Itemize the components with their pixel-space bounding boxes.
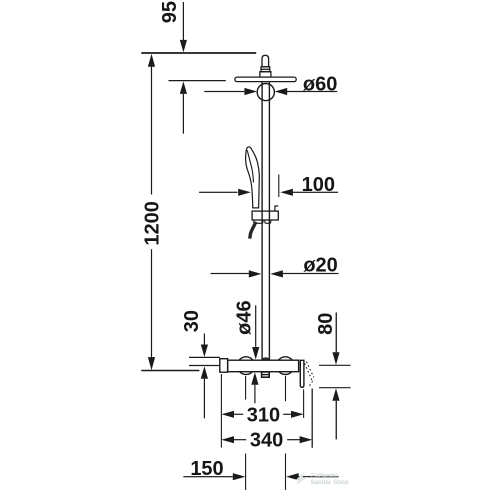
dim ø46 arrows <box>251 305 259 403</box>
svg-text:30: 30 <box>181 310 203 332</box>
lever handle <box>300 360 304 387</box>
knob cap on shower head <box>262 55 269 67</box>
svg-text:ø60: ø60 <box>303 73 337 95</box>
dim 310 left extension line <box>220 374 222 448</box>
diverter knob under mixer <box>262 372 270 377</box>
dim 310 right extension line <box>303 389 305 418</box>
dim 30 tick lines <box>189 356 220 358</box>
mixer body bar <box>228 360 299 372</box>
bracket lower tabs <box>254 220 263 223</box>
svg-text:95: 95 <box>159 1 181 23</box>
inlet extension line left <box>245 376 247 490</box>
knob flange <box>260 72 271 77</box>
holder bracket <box>252 211 278 220</box>
valve circle left <box>237 357 255 375</box>
dim 95 upper arrow <box>180 2 187 52</box>
pipe foot <box>262 357 270 360</box>
valve circle right <box>277 357 295 375</box>
watermark logo <box>294 472 308 486</box>
svg-text:310: 310 <box>247 404 280 426</box>
dim ø20 arrows <box>211 270 339 277</box>
wire top reference line (ceiling/top of column) <box>141 52 256 54</box>
wire shower-head reference line <box>169 80 226 82</box>
mixer left cap <box>220 359 228 373</box>
dim 310 line with arrows <box>221 411 303 418</box>
dim 340 right extension line <box>311 389 313 448</box>
handshower outline <box>246 147 260 208</box>
hose stub <box>250 222 256 239</box>
svg-text:100: 100 <box>302 174 335 196</box>
svg-text:1200: 1200 <box>141 201 163 246</box>
svg-text:Sanitär Shop: Sanitär Shop <box>311 479 349 486</box>
bracket hook <box>275 206 278 211</box>
dim 80 tick lines <box>319 364 351 366</box>
handshower inner contour <box>247 150 253 182</box>
shower head disc <box>235 77 296 82</box>
dim 150 arrows <box>183 473 338 480</box>
lever swing dashed lines <box>305 362 314 386</box>
dim 340 line with arrows <box>221 436 312 443</box>
knob stem <box>261 67 270 72</box>
dim 95 lower arrow <box>180 81 187 133</box>
dim 100 extension line <box>278 175 280 198</box>
wire bottom mounting reference line <box>141 370 199 372</box>
ball joint <box>257 84 274 101</box>
pipe (vertical column) <box>261 82 263 360</box>
svg-text:ø46: ø46 <box>233 300 255 334</box>
svg-text:340: 340 <box>250 430 283 452</box>
svg-text:ø20: ø20 <box>303 255 337 277</box>
svg-text:80: 80 <box>315 313 337 335</box>
dim ø60 arrows <box>204 88 337 95</box>
inlet extension line right <box>285 376 287 490</box>
dim 80 arrows <box>332 312 339 439</box>
dim 100 arrows <box>199 189 338 196</box>
dim 1200 line with arrows <box>148 54 155 371</box>
dim 30 arrows <box>201 334 208 419</box>
